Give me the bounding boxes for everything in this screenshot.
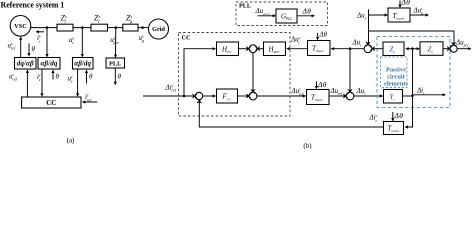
svg-text:icref: icref [85,93,92,103]
sum junction sum4 [346,92,354,100]
dtheta arrow into Ttrans2 [392,112,394,120]
wire: upcc node down to PLL [115,28,117,57]
wire: HFV to sum1 [239,48,247,50]
transform block Ttrans3 [307,90,330,105]
svg-text:(a): (a) [67,137,75,145]
wire: VSC to Zf [31,27,57,29]
PLL output arrow dtheta [297,15,314,17]
node upcc [115,26,118,29]
node diref branch [183,95,186,98]
wire: dqab up to VSC with uref_s [20,38,22,58]
svg-text:icc: icc [37,73,41,83]
transform block dq/ab [15,58,37,70]
PLL transfer block GPLL [276,9,297,23]
svg-text:Δicc: Δicc [369,113,378,123]
Grid source circle [149,19,169,39]
sum junction sum5 dut [364,45,372,53]
wire: Ttrans1 to HdFF with duc_c [287,48,307,50]
svg-text:usg: usg [139,34,145,44]
wire: sum2 to Ttrans3 with duref_c [257,95,305,97]
node uc [81,26,84,29]
sum junction sum2 [249,92,257,100]
wire: FCC to sum2 [238,95,248,97]
wire: CC up to dqab uref_c [26,70,28,97]
svg-text:αβ/dq: αβ/dq [74,59,91,67]
svg-text:θ: θ [32,45,36,53]
PLL input arrow dupccq [258,15,275,17]
transform block Ttrans2 [384,122,404,135]
PLL theta output [114,68,116,84]
wire: abdq2 down to CC uc_c [77,69,79,96]
svg-text:θ: θ [118,73,122,81]
wire: dic output arrow [413,94,445,96]
svg-text:Passive: Passive [386,67,406,74]
current arrow ic_s [37,31,45,33]
svg-text:usc: usc [69,36,75,46]
svg-text:CC: CC [46,99,56,107]
wire: HdFF output to sum1 [259,48,264,50]
wire: dug over to sum6 [369,31,455,44]
svg-text:elements: elements [384,81,408,88]
impedance Zg [123,24,138,31]
wire: branch up and to HFV [184,49,215,96]
wire: dug to Ttrans0 [369,14,387,16]
svg-text:Δupcc: Δupcc [455,39,469,48]
iref input arrow into CC [83,101,97,103]
svg-text:Δucc: Δucc [290,35,301,45]
wire: diref into sum3 [143,95,195,97]
svg-text:Δupccq: Δupccq [255,7,270,16]
svg-text:Δθ: Δθ [302,6,312,15]
feedforward block HFV [217,42,239,56]
svg-text:isc: isc [37,34,41,44]
svg-text:VSC: VSC [14,23,26,30]
svg-text:αβ/dq: αβ/dq [41,59,58,67]
sum junction sum3 [195,92,202,99]
CC dashed box [179,33,291,117]
node ug [141,26,144,29]
svg-text:Δuref: Δuref [330,87,343,96]
svg-text:PLL: PLL [239,3,251,10]
theta arrow into abdq1 [52,70,54,79]
impedance block Zp [383,42,404,56]
VSC converter circle [10,15,31,36]
wire: Yc output to node [403,95,413,97]
svg-text:uspcc: uspcc [110,36,119,46]
grid voltage input dug [368,9,370,42]
wire: node to Zg input [413,48,419,50]
impedance Zc [91,24,108,31]
passive circuit elements dashed box [377,37,450,108]
svg-text:Δucg: Δucg [413,6,424,16]
svg-text:Δic: Δic [416,87,425,96]
passive elements label callout dashed box [381,57,408,88]
svg-text:Zsc: Zsc [94,13,100,23]
node di branch top [411,47,414,50]
wire: ic node down to abdq1 [46,28,48,57]
svg-text:circuit: circuit [387,74,405,81]
PLL block part a [106,58,125,68]
svg-text:Δut: Δut [352,39,363,48]
wire: uc node down to abdq2 [81,28,83,57]
svg-text:Reference system 1: Reference system 1 [1,1,65,10]
transform block ab/dq current [38,58,60,70]
PLL dashed box [236,2,328,26]
wire: Zg output to sum6 [443,48,449,50]
wire: dut down into sum4 [349,49,351,90]
wire: Zp output to sum5 [373,48,383,50]
transform block Ttrans0 [388,8,410,22]
sum junction sum1 [249,45,257,53]
node dic [411,95,414,98]
svg-text:Δug: Δug [356,11,367,20]
wire: sum5out to Ttrans1 dut [331,48,364,50]
wire: sum6 output dupcc [457,48,470,50]
svg-text:dq/αβ: dq/αβ [17,59,34,67]
wire: Ttrans0 output dug_c [410,14,428,16]
current controller block FCC [217,89,238,103]
transform block ab/dq voltage [73,58,94,70]
theta arrow into dqab [28,44,30,56]
svg-text:Zsg: Zsg [126,13,133,23]
svg-text:PLL: PLL [109,61,121,68]
wire: sum1 down to sum2 [252,53,254,91]
current controller CC block part a [22,97,81,108]
feedforward filter block HdFF [264,42,286,56]
wire: sum4 to Yc with duc [354,95,382,97]
svg-text:Δθ: Δθ [317,80,327,89]
svg-text:θ: θ [89,73,93,81]
svg-text:Δuc: Δuc [356,87,367,96]
svg-text:Δθ: Δθ [401,0,411,6]
theta arrow into abdq2 [86,70,88,83]
wire: dic up to impedance node [412,49,414,96]
dtheta arrow into Ttrans0 [399,1,401,7]
svg-text:Δθ: Δθ [394,111,404,120]
svg-text:Grid: Grid [152,26,165,33]
dtheta arrow into Ttrans1 [317,33,319,40]
impedance block Zg [420,42,443,56]
svg-text:Zsf: Zsf [61,13,67,23]
svg-text:θ: θ [56,73,60,81]
svg-text:Δicref: Δicref [165,83,177,93]
wire: node to Zp input [406,48,412,50]
node dut branch to sum4 [349,47,352,50]
feedback wire dic_c to sum3 [199,101,383,127]
wire: Zc to Zg [108,27,123,29]
transform block Ttrans1 [308,41,331,56]
svg-text:(b): (b) [303,142,312,149]
svg-text:CC: CC [182,34,191,41]
wire: Zg to Grid [138,27,149,29]
admittance block Yc [384,90,403,104]
wire: sum3 to FCC [203,95,215,97]
wire: Ttrans3 to sum4 with duref_s [329,95,345,97]
wire: abdq1 down to CC ic_c [41,69,43,96]
svg-text:ucc: ucc [68,74,74,84]
dtheta arrow into Ttrans3 [316,82,318,89]
svg-text:ucref: ucref [9,72,18,82]
svg-text:Δucref: Δucref [291,87,305,97]
impedance Zf [57,24,73,31]
wire: Zf to Zc [73,27,91,29]
wire: dic down to Ttrans2 [406,96,413,127]
svg-text:usref: usref [8,41,16,51]
svg-text:Δθ: Δθ [319,30,328,38]
sum junction sum6 dupcc [450,45,457,52]
node ic measurement [46,26,49,29]
